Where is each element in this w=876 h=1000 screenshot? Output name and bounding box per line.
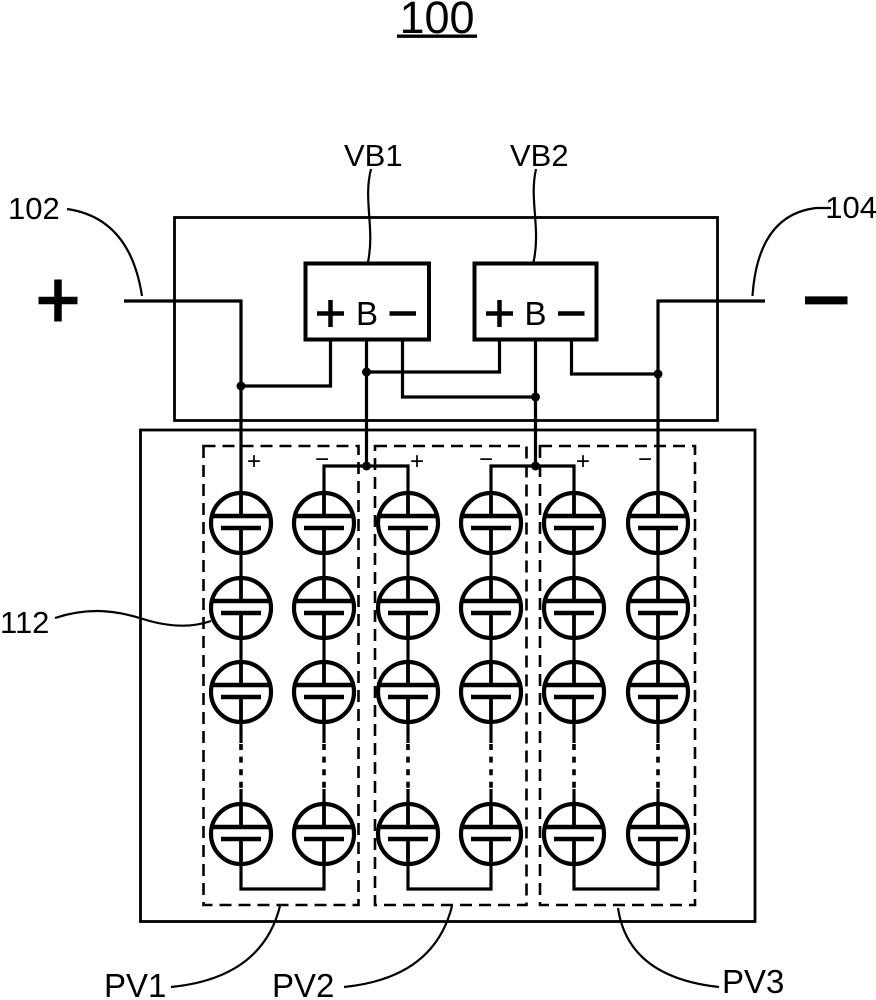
- PV cell PV2+ row1: [377, 491, 439, 555]
- ellipsis PV3+: [572, 744, 576, 789]
- leader PV3: [618, 908, 719, 987]
- junction VB1 - / VB2 B: [531, 393, 540, 402]
- wire PV3+ column links: [572, 555, 575, 802]
- ellipsis PV2+: [406, 744, 410, 789]
- ellipsis PV1-: [322, 744, 326, 789]
- ellipsis PV2-: [489, 744, 493, 789]
- terminal - node 104: [805, 296, 848, 304]
- wire node B split to PV1 - and PV2 +: [324, 466, 408, 491]
- PV cell PV1- row2: [293, 576, 355, 640]
- wire PV1 bottom U: [241, 866, 324, 889]
- leader PV1: [171, 906, 280, 987]
- PV cell PV1- row1: [293, 491, 355, 555]
- PV cell PV1- row3: [293, 660, 355, 724]
- wire + terminal to node A: [124, 301, 241, 386]
- svg-text:−: −: [479, 446, 493, 473]
- svg-text:−: −: [315, 446, 329, 473]
- wire - terminal to PV3 - column: [658, 301, 765, 491]
- leader 102: [67, 209, 142, 296]
- svg-text:VB1: VB1: [344, 138, 403, 173]
- PV cell PV3- row1: [627, 491, 689, 555]
- wire PV2 bottom U: [408, 866, 491, 889]
- PV cell PV2+ row4: [377, 802, 439, 866]
- PV cell PV3+ row3: [543, 660, 605, 724]
- wire node A to VB1 + pin: [241, 340, 331, 387]
- PV cell PV3- row2: [627, 576, 689, 640]
- PV cell PV2- row3: [460, 660, 522, 724]
- svg-text:+: +: [247, 448, 261, 475]
- junction node C: [531, 462, 540, 471]
- svg-text:B: B: [524, 295, 546, 332]
- wire PV3 bottom U: [574, 866, 658, 889]
- wire junction to VB2 + pin: [367, 340, 500, 373]
- wire node A to PV1 + column: [239, 386, 242, 491]
- svg-text:−: −: [638, 446, 652, 473]
- title 100: [397, 0, 477, 43]
- wire VB2 - pin to node D: [572, 340, 659, 375]
- ellipsis PV1+: [239, 744, 243, 789]
- PV3 dashed box: [540, 446, 695, 905]
- wire PV1- column links: [322, 555, 325, 802]
- PV cell PV3+ row2: [543, 576, 605, 640]
- wire PV3- column links: [656, 555, 659, 802]
- PV cell PV3+ row4: [543, 802, 605, 866]
- PV cell PV3- row4: [627, 802, 689, 866]
- leader VB2: [534, 169, 537, 262]
- svg-text:102: 102: [8, 191, 60, 226]
- converter box: [175, 218, 718, 421]
- svg-text:PV3: PV3: [722, 963, 784, 1000]
- PV cell PV2+ row2: [377, 576, 439, 640]
- svg-text:104: 104: [825, 190, 876, 225]
- terminal + node 102: [39, 280, 78, 322]
- junction node B: [362, 462, 371, 471]
- wire VB1 - pin to VB2 B: [403, 340, 536, 398]
- svg-text:VB2: VB2: [510, 138, 569, 173]
- svg-text:B: B: [356, 295, 378, 332]
- PV cell PV1- row4: [293, 802, 355, 866]
- PV cell PV1+ row2: [210, 576, 272, 640]
- PV cell PV3- row3: [627, 660, 689, 724]
- PV array box: [141, 430, 756, 922]
- battery VB2: [475, 264, 597, 340]
- PV cell PV3+ row1: [543, 491, 605, 555]
- wire VB2 B pin down to node C: [534, 340, 537, 467]
- wire node C split to PV2 - and PV3 +: [491, 466, 574, 491]
- ellipsis PV3-: [656, 744, 660, 789]
- leader 104: [753, 208, 832, 296]
- wire VB1 B pin down to node B: [365, 340, 368, 467]
- svg-text:112: 112: [0, 605, 49, 640]
- PV2 dashed box: [375, 446, 527, 905]
- wire PV2+ column links: [406, 555, 409, 802]
- PV cell PV2+ row3: [377, 660, 439, 724]
- junction VB1 B / VB2 +: [362, 368, 371, 377]
- svg-text:+: +: [410, 448, 424, 475]
- battery VB1: [306, 264, 430, 340]
- junction node D: [654, 370, 663, 379]
- junction node A: [237, 382, 246, 391]
- PV cell PV2- row2: [460, 576, 522, 640]
- leader VB1: [368, 169, 371, 262]
- svg-text:PV1: PV1: [104, 967, 166, 1000]
- PV cell PV1+ row1: [210, 491, 272, 555]
- wire PV2- column links: [489, 555, 492, 802]
- PV cell PV2- row1: [460, 491, 522, 555]
- PV cell PV1+ row3: [210, 660, 272, 724]
- PV cell PV1+ row4: [210, 802, 272, 866]
- svg-text:+: +: [576, 448, 590, 475]
- PV1 dashed box: [204, 446, 359, 905]
- leader PV2: [344, 906, 452, 987]
- PV cell PV2- row4: [460, 802, 522, 866]
- leader 112: [55, 611, 211, 626]
- wire PV1+ column links: [239, 555, 242, 802]
- svg-text:PV2: PV2: [272, 967, 334, 1000]
